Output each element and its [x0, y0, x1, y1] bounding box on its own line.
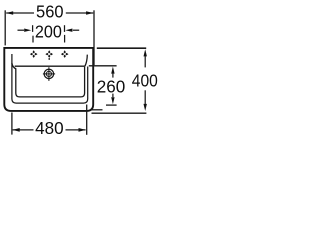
- 400 bottom reference line: [92, 112, 147, 114]
- dim 560 extension line left: [4, 10, 6, 45]
- dim 200 dashed extension right: [64, 35, 66, 43]
- 260 bottom reference line: [106, 104, 117, 106]
- dim 200 left outside arrow: [18, 29, 25, 31]
- svg-text:400: 400: [132, 71, 158, 91]
- dim 560 extension line right: [93, 10, 95, 65]
- basin rim inner outline: [12, 54, 88, 103]
- dim 400 top arrow: [144, 49, 147, 56]
- dim 560 line right segment: [66, 12, 94, 14]
- dim 260 top arrow: [111, 67, 114, 74]
- svg-text:480: 480: [35, 118, 64, 138]
- faucet hole cross right: [61, 50, 69, 58]
- dim 480 extension line right: [86, 105, 88, 135]
- dim 560 line left segment: [6, 12, 34, 14]
- deck top extension line to 400 dim: [97, 47, 146, 49]
- svg-text:560: 560: [36, 2, 64, 22]
- dim 480 line right segment: [66, 129, 86, 131]
- deck bottom right stub extension: [92, 109, 103, 111]
- dim 200 tick left: [32, 25, 34, 32]
- drain symbol: [43, 67, 55, 81]
- dim 480 extension line left: [11, 113, 13, 135]
- svg-text:200: 200: [35, 22, 62, 42]
- dim 400 bottom arrow: [144, 90, 146, 104]
- rim left hook: [12, 63, 16, 69]
- dim 560 right arrow: [86, 11, 93, 15]
- svg-text:260: 260: [97, 77, 126, 97]
- faucet hole cross left: [30, 50, 38, 58]
- bowl outline: [16, 66, 85, 97]
- dim 260 bottom arrow: [112, 94, 114, 98]
- dim 480 line left segment: [13, 129, 34, 131]
- dim 200 dashed extension left: [32, 36, 34, 43]
- bowl chord extension line to 260 dim: [89, 65, 117, 67]
- rim right hook: [85, 55, 87, 67]
- washbasin outer deck outline: [4, 48, 93, 111]
- faucet hole cross middle: [45, 50, 53, 58]
- drain centre dash above: [48, 58, 50, 60]
- dim 480 right arrow: [79, 128, 86, 132]
- dim 200 tick right: [64, 25, 66, 32]
- dim 200 right outside arrow: [73, 29, 79, 31]
- dim 560 left arrow: [6, 11, 13, 15]
- dim 480 left arrow: [13, 128, 20, 132]
- bowl back chord line: [15, 65, 85, 67]
